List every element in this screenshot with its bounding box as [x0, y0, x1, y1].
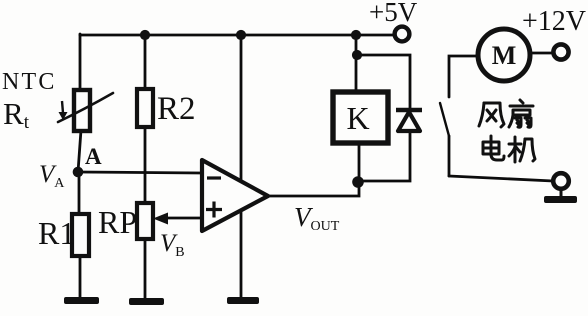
output terminal circle — [553, 173, 569, 189]
thermistor temperature arrow — [62, 101, 63, 113]
svg-text:RP: RP — [98, 204, 137, 240]
svg-text:+5V: +5V — [369, 0, 418, 27]
svg-text:M: M — [492, 41, 517, 70]
wire junction to diode bottom — [359, 131, 410, 181]
potentiometer RP wiper arrowhead — [153, 213, 168, 225]
wire op-amp output to junction — [268, 143, 359, 196]
output terminal ground bar — [560, 189, 563, 197]
node junction dot (356,35) — [351, 30, 361, 40]
label fan motor 风扇电机 (drawn glyphs) — [479, 100, 535, 162]
switch S arm — [440, 103, 449, 136]
glyph dian 电 — [483, 136, 504, 160]
wire RP to ground — [144, 239, 147, 299]
glyph ji 机 — [509, 137, 535, 162]
op-amp non-inverting + sign — [206, 202, 222, 218]
wire node A to inverting input — [78, 172, 201, 173]
relay K box — [333, 92, 388, 143]
diode D cathode bar — [396, 108, 422, 112]
wire R2 drop — [144, 35, 147, 89]
thermistor Rt body — [74, 90, 90, 131]
wire motor to +12V terminal — [530, 52, 553, 55]
node junction dot (241,35) — [236, 30, 246, 40]
wire +5V to relay K — [355, 35, 358, 92]
potentiometer RP body — [137, 203, 153, 239]
svg-text:A: A — [85, 144, 102, 169]
wire top +5V rail — [80, 34, 396, 37]
wire +5V branch to diode top — [357, 55, 410, 109]
thermistor Rt diagonal — [58, 93, 113, 122]
svg-text:VOUT: VOUT — [294, 202, 340, 234]
glyph shan 扇 — [509, 100, 533, 127]
ground under op-amp rail — [227, 297, 259, 304]
wire R1 to ground — [79, 256, 82, 298]
svg-text:R1: R1 — [38, 215, 75, 251]
resistor R1 body — [72, 214, 89, 256]
svg-text:R2: R2 — [157, 91, 196, 127]
ground under RP — [129, 298, 164, 305]
motor M circle — [478, 29, 530, 81]
node junction dot (357,55) — [352, 50, 362, 60]
op-amp U1 comparator — [202, 160, 268, 231]
svg-text:VA: VA — [39, 161, 65, 191]
svg-text:+12V: +12V — [522, 6, 586, 37]
wire op-amp supply rail — [240, 35, 243, 297]
wire node A to R1 — [78, 172, 81, 214]
node junction dot (145,35) — [140, 30, 150, 40]
op-amp inverting - sign — [207, 176, 221, 179]
svg-text:K: K — [346, 100, 369, 136]
diode D triangle — [398, 112, 420, 131]
svg-text:VB: VB — [160, 230, 185, 260]
resistor R2 body — [137, 89, 153, 127]
node junction dot output (358,182) — [352, 176, 364, 188]
svg-text:Rt: Rt — [3, 96, 30, 133]
svg-text:NTC: NTC — [2, 69, 57, 95]
wire thermistor to node A — [78, 130, 81, 172]
ground under R1 — [64, 297, 99, 304]
wire bottom to output terminal — [449, 176, 553, 181]
+12V terminal circle — [553, 44, 568, 59]
glyph feng 风 — [479, 103, 504, 127]
wire R2 to RP — [144, 127, 147, 203]
wire switch top from motor — [449, 56, 478, 97]
wire switch bottom — [448, 136, 451, 176]
wire RP wiper to non-inverting input — [165, 217, 201, 220]
+5V terminal circle — [395, 27, 410, 42]
node A dot — [73, 167, 84, 178]
wire left drop to thermistor — [79, 34, 82, 90]
